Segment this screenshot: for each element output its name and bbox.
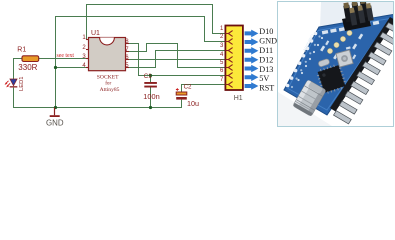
wire: C1 stub to GND rail: [150, 88, 152, 108]
usb connector: [293, 80, 326, 116]
background washes: [320, 2, 393, 28]
left edge pads: [286, 32, 318, 88]
header pin numbers 1-7: [220, 26, 224, 83]
wire: C1 stub to 5V rail: [150, 76, 152, 83]
svg-text:RST: RST: [259, 84, 274, 93]
wire: SCK net socket pin7 to header pin5: [129, 44, 225, 68]
wire: MISO net socket pin6 to header pin4: [129, 59, 225, 61]
right comb pins: [334, 23, 395, 124]
svg-text:Attiny85: Attiny85: [100, 87, 120, 93]
LED1: [5, 76, 25, 91]
tact button: [336, 50, 353, 67]
svg-text:LED1: LED1: [19, 76, 25, 91]
svg-text:5V: 5V: [259, 74, 269, 83]
svg-text:R1: R1: [17, 47, 26, 54]
icsp header base: [342, 14, 371, 31]
svg-text:D11: D11: [259, 46, 273, 55]
chip: [315, 63, 347, 95]
resistor R1: [22, 56, 39, 62]
wire: GND net top rail to header pin2 with left riser: [56, 17, 226, 108]
svg-text:U1: U1: [91, 30, 100, 37]
ground symbol GND: [46, 108, 64, 128]
svg-text:H1: H1: [234, 95, 243, 102]
svg-text:for: for: [105, 80, 111, 87]
wire: net D10 from socket pin1 up over top rail to header pin1: [87, 5, 226, 40]
wire: RST net C2 top to header pin7: [182, 85, 226, 93]
junction C1 top / 5V rail: [149, 74, 152, 77]
capacitor C1: [143, 73, 159, 101]
wire: GND bottom rail from LED cathode to C2 bottom: [14, 88, 182, 108]
svg-text:C2: C2: [184, 83, 192, 90]
socket pin numbers: [82, 35, 86, 69]
svg-text:100n: 100n: [143, 92, 159, 101]
arrows to pin function labels: [245, 30, 259, 90]
junction GND riser / bottom rail: [54, 106, 57, 109]
svg-text:see text: see text: [57, 53, 75, 59]
svg-text:D12: D12: [259, 55, 273, 64]
board pcb quad: [284, 14, 395, 115]
socket pin stubs left 1-4: [86, 40, 89, 68]
node labels: [259, 27, 277, 92]
svg-text:GND: GND: [259, 37, 277, 46]
gold pads diagonal: [327, 30, 352, 53]
socket pin stubs right 8-5: [126, 44, 130, 68]
svg-text:330R: 330R: [18, 63, 37, 72]
silkscreen row under top edge: [322, 21, 379, 35]
svg-text:C1: C1: [144, 73, 152, 80]
wire: R1 to socket pin3: [39, 58, 89, 60]
svg-text:10u: 10u: [187, 99, 199, 108]
wire: GND branch to socket pin4: [56, 67, 89, 69]
extra silkscreen dots: [297, 37, 356, 81]
junction GND riser / pin4 branch: [54, 66, 57, 69]
white footprint bits mid board: [320, 34, 363, 60]
capacitor C2 polarized: [176, 83, 199, 108]
socket U1 body: [82, 30, 129, 93]
right pin comb: black strip: [330, 17, 395, 112]
svg-text:D13: D13: [259, 65, 273, 74]
header H1: [220, 26, 243, 103]
svg-text:D10: D10: [259, 27, 273, 36]
wire: MOSI net socket pin5 to header pin3: [129, 51, 225, 68]
header pin chevrons: [225, 31, 232, 88]
junction C1 bottom / GND rail: [149, 106, 152, 109]
icsp posts: [343, 0, 374, 26]
photo of Arduino Nano: [278, 0, 395, 126]
wire: 5V net from socket pin8 down to header pin6: [129, 44, 225, 76]
svg-text:GND: GND: [46, 119, 64, 128]
wire: LED anode up to R1: [14, 59, 23, 80]
small dark component near usb: [318, 58, 330, 67]
